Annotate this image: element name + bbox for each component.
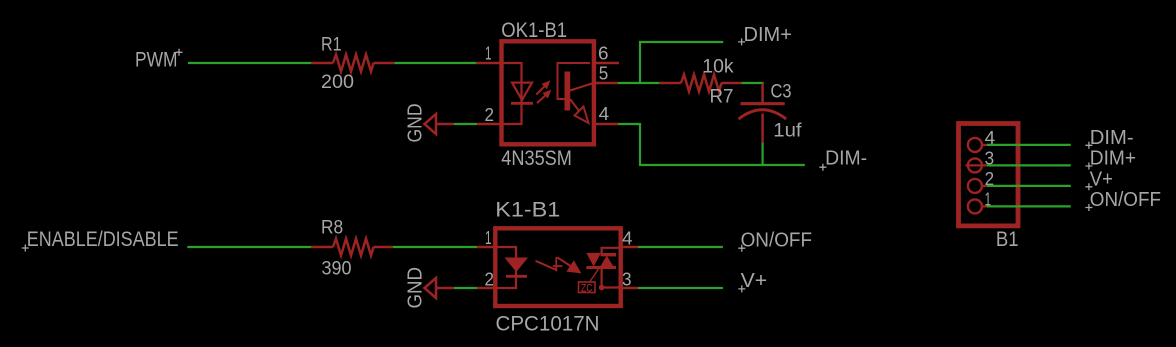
wire GND to K1 pin2 <box>454 287 477 289</box>
node ENABLE/DISABLE label <box>22 228 179 251</box>
ZC block <box>579 282 596 294</box>
node DIM- label (B1) <box>1085 127 1133 149</box>
pin stub OK1 pin2 <box>477 123 503 125</box>
svg-text:10k: 10k <box>702 57 734 78</box>
svg-text:CPC1017N: CPC1017N <box>496 311 600 335</box>
svg-text:B1: B1 <box>996 227 1019 251</box>
svg-text:ON/OFF: ON/OFF <box>741 230 812 252</box>
svg-text:PWM: PWM <box>135 49 178 72</box>
OK1 internal LED anode wire <box>503 63 522 124</box>
svg-text:R8: R8 <box>321 217 343 238</box>
wire K1 pin3 to V+ <box>638 287 723 289</box>
transistor Q1 base wire (OK1) <box>558 63 591 99</box>
svg-text:390: 390 <box>322 258 352 279</box>
K1 output bottom wire <box>600 269 602 288</box>
wire B1 pin1 net <box>987 205 1071 207</box>
svg-text:2: 2 <box>485 269 495 289</box>
K1 internal LED cathode bar <box>506 275 527 278</box>
node V+ label (B1) <box>1085 168 1113 190</box>
OK1 light arrow 2 <box>537 91 551 104</box>
pin stub K1 pin3 <box>621 287 638 289</box>
K1 output top bar <box>601 253 617 256</box>
svg-text:R7: R7 <box>710 87 734 108</box>
svg-text:C3: C3 <box>771 82 792 103</box>
svg-text:V+: V+ <box>1090 168 1113 190</box>
wire DIM+ riser <box>640 42 723 83</box>
B1 pin 4 pad <box>968 128 995 152</box>
K1 internal LED triangle <box>506 258 528 271</box>
wire B1 pin2 net <box>987 185 1071 187</box>
K1 internal LED anode wire <box>497 247 516 288</box>
node ON/OFF label (B1) <box>1085 189 1161 211</box>
wire R7 to C3 <box>741 82 763 84</box>
OK1 light arrow 1 <box>536 81 549 94</box>
pin stub OK1 pin5 <box>592 82 618 84</box>
svg-text:4: 4 <box>622 228 633 248</box>
svg-text:K1-B1: K1-B1 <box>495 197 560 221</box>
wire C3 to DIM- net <box>761 143 763 165</box>
svg-text:DIM-: DIM- <box>1090 127 1134 149</box>
K1 output bottom bar <box>586 266 616 269</box>
resistor R7 <box>659 75 741 92</box>
OK1 internal LED cathode bar <box>511 102 533 105</box>
wire R1 to OK1 pin1 <box>395 62 477 64</box>
B1 pin 3 pad <box>966 149 995 173</box>
svg-text:1: 1 <box>485 44 492 64</box>
relay K1-B1 box <box>495 228 620 306</box>
node V+ label <box>738 270 767 293</box>
K1 output SCR down triangle <box>586 253 601 267</box>
svg-text:5: 5 <box>599 64 609 84</box>
capacitor C3 <box>739 83 787 143</box>
svg-text:DIM-: DIM- <box>825 148 867 170</box>
svg-text:GND: GND <box>405 104 427 143</box>
K1 light arrow <box>536 257 581 273</box>
K1 pin3 internal wire <box>602 286 619 288</box>
svg-text:2: 2 <box>485 105 495 125</box>
B1 pin 2 pad <box>968 169 994 193</box>
wire B1 pin3 net <box>987 164 1071 166</box>
wire GND to OK1 pin2 <box>454 123 477 125</box>
resistor R8 <box>311 239 393 256</box>
ground GND (bottom) <box>405 267 454 309</box>
node DIM+ label <box>738 24 792 46</box>
wire ENABLE net <box>187 246 311 248</box>
transistor Q1 emitter <box>570 99 580 112</box>
wire pin5 net <box>618 82 659 84</box>
junction dot (K1 output) <box>599 285 605 291</box>
pin stub OK1 pin1 <box>476 62 503 64</box>
svg-text:DIM+: DIM+ <box>744 24 792 46</box>
pin stub OK1 pin6 <box>592 62 619 64</box>
wire K1 pin4 to ON/OFF <box>638 246 723 248</box>
svg-text:OK1-B1: OK1-B1 <box>501 18 567 42</box>
node DIM- label <box>819 148 867 171</box>
K1 output SCR up triangle <box>600 256 613 267</box>
node DIM+ label (B1) <box>1085 148 1136 170</box>
OK1 internal LED triangle <box>512 83 532 100</box>
pin stub K1 pin1 <box>477 246 497 248</box>
svg-text:DIM+: DIM+ <box>1090 148 1136 170</box>
svg-text:ON/OFF: ON/OFF <box>1090 189 1161 211</box>
svg-text:ENABLE/DISABLE: ENABLE/DISABLE <box>27 228 179 251</box>
B1 pin 1 pad <box>968 190 991 214</box>
svg-text:3: 3 <box>622 269 632 289</box>
svg-text:1uf: 1uf <box>773 121 802 142</box>
ZC gate line <box>590 268 600 282</box>
pin stub OK1 pin4 <box>592 123 618 125</box>
svg-text:ZC: ZC <box>581 282 593 294</box>
connector B1 box <box>959 124 1019 226</box>
wire PWM net <box>188 62 311 64</box>
svg-text:R1: R1 <box>321 34 342 55</box>
svg-text:6: 6 <box>598 44 609 64</box>
wire B1 pin4 net <box>987 144 1071 146</box>
op-amp U1: optocoupler OK1-B1 box <box>502 41 594 144</box>
wire pin4 to DIM- <box>618 124 805 165</box>
svg-text:1: 1 <box>485 228 492 248</box>
ground GND (top) <box>405 104 455 143</box>
wire R8 to K1 pin1 <box>393 246 477 248</box>
transistor Q1 collector <box>570 83 594 91</box>
node ON/OFF label <box>738 230 812 252</box>
svg-text:4N35SM: 4N35SM <box>501 146 572 170</box>
node PWM label <box>135 49 183 72</box>
svg-text:4: 4 <box>599 104 610 124</box>
svg-text:200: 200 <box>321 72 354 93</box>
resistor R1 <box>311 55 395 72</box>
K1 output top wire <box>602 248 619 254</box>
transistor Q1 emitter arrow <box>575 107 589 124</box>
pin stub K1 pin2 <box>477 287 497 289</box>
pin stub K1 pin4 <box>621 246 638 248</box>
transistor Q1 base bar <box>565 72 571 111</box>
